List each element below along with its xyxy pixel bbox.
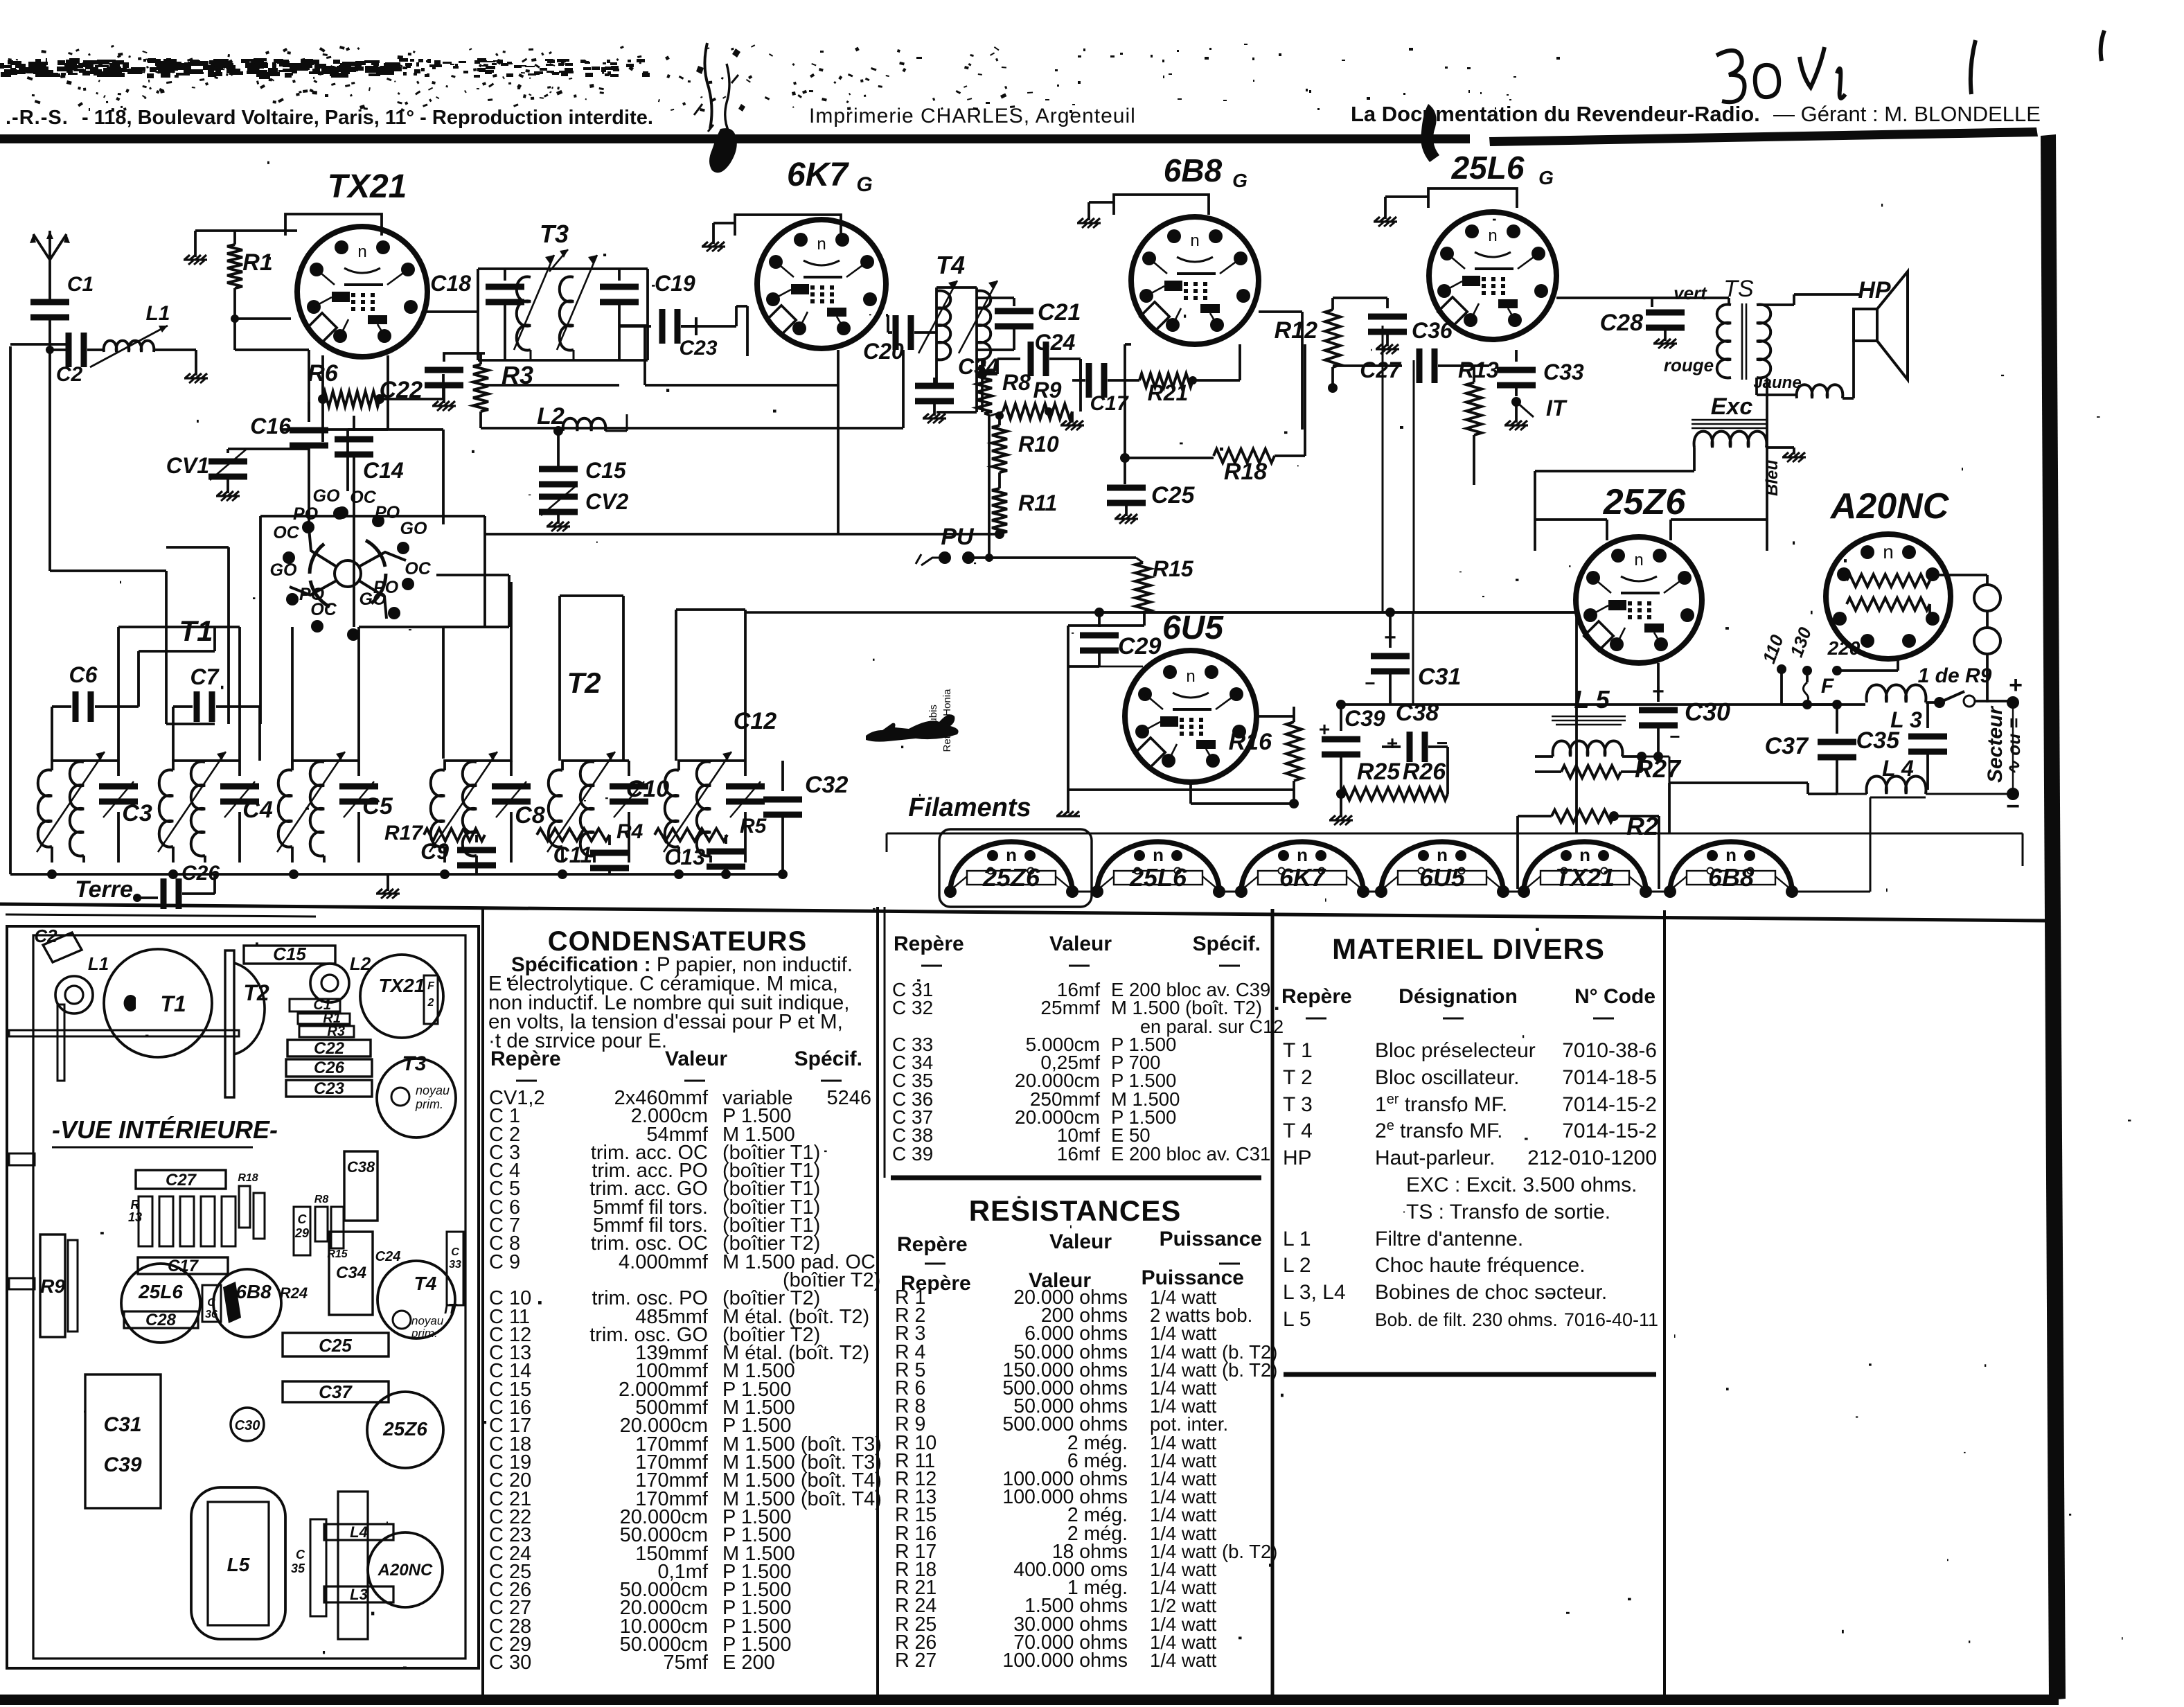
resistor R1 (227, 231, 291, 323)
wire R11 bottom bus (485, 533, 1000, 536)
C2 plate (34, 926, 82, 962)
coil L3 (1867, 685, 1926, 733)
svg-text:C31: C31 (103, 1413, 141, 1436)
svg-text:OC: OC (310, 600, 337, 619)
capacitor C29 (1068, 612, 1161, 666)
filament links (1072, 797, 1926, 892)
svg-text:25L6: 25L6 (1451, 150, 1525, 186)
C35 chassis (291, 1519, 326, 1616)
svg-text:—: — (1069, 953, 1090, 976)
svg-text:R 27: R 27 (895, 1649, 936, 1672)
svg-text:C6: C6 (69, 662, 98, 687)
svg-text:25L6: 25L6 (1129, 863, 1187, 892)
svg-text:6B8: 6B8 (1164, 152, 1223, 188)
resistor R10 (992, 412, 1059, 472)
svg-text:C23: C23 (314, 1079, 345, 1098)
25L6 chassis (121, 1264, 200, 1343)
capacitor C14 (335, 416, 404, 524)
svg-text:4.000mmf: 4.000mmf (619, 1251, 709, 1273)
svg-text:Désignation: Désignation (1399, 985, 1518, 1008)
6B8 top box (1114, 195, 1209, 215)
svg-text:n: n (1725, 844, 1737, 865)
tube 6B8 (1131, 217, 1259, 344)
svg-text:G: G (856, 173, 872, 196)
resistor R9 potentiometer (984, 378, 1084, 430)
svg-text:C24: C24 (375, 1249, 401, 1264)
svg-text:220: 220 (1827, 637, 1861, 659)
ground 6K7 top (702, 223, 735, 251)
handwritten 30V (1716, 30, 2104, 102)
svg-text:n: n (1437, 844, 1448, 865)
transfo T4 frame (936, 288, 977, 412)
svg-text:C12: C12 (734, 708, 776, 734)
svg-text:C26: C26 (314, 1059, 345, 1077)
svg-text:E 200: E 200 (722, 1652, 775, 1674)
svg-text:T3: T3 (540, 220, 569, 248)
svg-text:R1: R1 (242, 249, 272, 276)
svg-text:C13: C13 (664, 844, 705, 869)
6B8 chassis (213, 1269, 281, 1337)
svg-text:TX21: TX21 (328, 168, 407, 205)
svg-text:C23: C23 (679, 337, 717, 360)
C1 box (290, 998, 340, 1013)
svg-text:C19: C19 (655, 271, 695, 296)
svg-text:R9: R9 (1033, 378, 1062, 403)
vertical R8 to PU (988, 416, 991, 558)
svg-text:noyau: noyau (411, 1314, 444, 1327)
wire exc left down (1535, 448, 1694, 551)
svg-text:1er transfo MF.: 1er transfo MF. (1375, 1092, 1507, 1116)
capacitor C34 (915, 354, 999, 423)
svg-text:F: F (427, 980, 435, 992)
svg-text:—: — (1306, 1006, 1326, 1029)
capacitor C27 (1333, 348, 1458, 383)
svg-text:C30: C30 (1685, 698, 1730, 726)
svg-text:n: n (1297, 844, 1308, 865)
svg-text:Bob. de filt. 230 ohms.: Bob. de filt. 230 ohms. (1375, 1309, 1558, 1330)
capacitor C11 (553, 835, 629, 874)
svg-text:C32: C32 (805, 772, 848, 798)
Exc field coil (1692, 420, 1768, 448)
svg-text:C2: C2 (56, 363, 83, 386)
svg-text:C29: C29 (1118, 633, 1161, 660)
svg-text:R15: R15 (1153, 556, 1194, 581)
svg-text:T1: T1 (160, 991, 186, 1016)
svg-text:7014-15-2: 7014-15-2 (1562, 1120, 1657, 1142)
svg-text:n: n (1186, 667, 1195, 686)
A20NC chassis (368, 1532, 443, 1607)
svg-text:L 3, L4: L 3, L4 (1283, 1281, 1346, 1304)
wire L2 down (557, 431, 560, 467)
T3 chassis (377, 1052, 456, 1138)
svg-text:TX21: TX21 (1555, 863, 1615, 892)
antenna feed vertical (50, 350, 166, 627)
ground C39 (1329, 789, 1353, 825)
svg-text:vert: vert (1673, 283, 1707, 303)
filament TX21 (1518, 842, 1652, 898)
svg-text:—: — (1219, 953, 1240, 976)
svg-text:7016-40-11: 7016-40-11 (1564, 1309, 1658, 1330)
tear smudge right of center (1421, 104, 1439, 162)
svg-text:6K7: 6K7 (1279, 863, 1326, 892)
svg-text:C24: C24 (1035, 330, 1076, 355)
svg-text:2e transfo MF.: 2e transfo MF. (1375, 1118, 1503, 1142)
transfo T3 frame (478, 269, 648, 360)
T2 chassis (225, 950, 269, 1097)
svg-text:TX21: TX21 (379, 975, 425, 996)
switch 1deR9 (1926, 691, 2010, 708)
svg-text:-VUE INTÉRIEURE-: -VUE INTÉRIEURE- (52, 1115, 278, 1144)
capacitor C30 (1639, 663, 1730, 761)
svg-text:C 30: C 30 (489, 1652, 531, 1674)
L4 chassis (324, 1523, 393, 1541)
capacitor C38 (1382, 700, 1448, 762)
svg-text:C 39: C 39 (892, 1143, 933, 1165)
capacitor C21 (977, 298, 1081, 350)
capacitor C2 (56, 333, 87, 386)
svg-text:C22: C22 (380, 377, 423, 403)
svg-text:25Z6: 25Z6 (382, 1418, 427, 1440)
chassis inner outline (33, 935, 465, 1659)
R1 box (298, 1011, 350, 1026)
resistor R2 (1518, 810, 1659, 889)
svg-text:Valeur: Valeur (1049, 932, 1112, 955)
column separator 4 (1663, 910, 1666, 1695)
chassis left tab 2 (9, 1278, 35, 1289)
svg-text:R: R (131, 1198, 140, 1212)
svg-text:R24: R24 (280, 1284, 308, 1302)
tap dots (1777, 664, 1786, 674)
T4 primary coil (918, 281, 957, 360)
resistor R4 (537, 820, 643, 843)
bottom bus (10, 873, 783, 876)
coil L2 (537, 403, 627, 436)
svg-text:L2: L2 (537, 403, 565, 430)
svg-text:C38: C38 (347, 1158, 375, 1176)
svg-text:PU: PU (941, 524, 975, 550)
svg-text:EXC : Excit. 3.500 ohms.: EXC : Excit. 3.500 ohms. (1406, 1174, 1637, 1196)
svg-text:C27: C27 (166, 1171, 197, 1189)
svg-text:C 32: C 32 (892, 997, 933, 1018)
B+ rails (1099, 611, 1390, 614)
tube TX21 (297, 227, 427, 357)
svg-text:6K7: 6K7 (787, 157, 849, 193)
svg-text:−: − (1669, 726, 1680, 747)
C27 box (136, 1170, 226, 1189)
TX21 top box (285, 214, 382, 236)
svg-text:5246: 5246 (826, 1087, 871, 1109)
svg-text:R25: R25 (1357, 759, 1401, 785)
filament box (939, 829, 1092, 907)
6K7 top box (735, 215, 841, 236)
svg-text:rouge: rouge (1664, 355, 1714, 375)
svg-text:GO: GO (270, 560, 297, 580)
svg-text:C34: C34 (336, 1264, 366, 1282)
voice coil (1797, 384, 1843, 398)
wire L1 to ground (154, 350, 196, 375)
svg-text:75mf: 75mf (664, 1652, 709, 1674)
bloc T1 section 2 coil + trimmer C4 (158, 752, 259, 863)
svg-text:R26: R26 (1403, 759, 1446, 785)
watermark silhouette (866, 714, 959, 741)
resistor R11 (992, 472, 1057, 533)
filament 6U5 (1375, 842, 1509, 898)
svg-text:T3: T3 (402, 1052, 426, 1075)
svg-text:R21: R21 (1148, 380, 1189, 405)
svg-text:Choc haute fréquence.: Choc haute fréquence. (1375, 1254, 1586, 1277)
svg-text:−: − (1437, 732, 1448, 754)
wire TS secondary to coil (1757, 294, 1859, 395)
svg-text:n: n (1883, 541, 1894, 563)
wire 6B8 bottom runs (1125, 344, 1131, 346)
Terre (75, 876, 158, 903)
svg-text:Exc: Exc (1711, 393, 1753, 420)
svg-text:R8: R8 (1002, 370, 1031, 395)
variable capacitor CV2 (539, 485, 628, 531)
T1 chassis (104, 949, 212, 1057)
table condensateurs header (490, 1047, 862, 1091)
svg-text:Repère: Repère (490, 1047, 561, 1070)
svg-text:Spécif.: Spécif. (794, 1047, 862, 1070)
bloc T2 section 1 coil + trimmer C8 (429, 752, 531, 863)
svg-text:Terre: Terre (75, 876, 133, 903)
capacitor C28 (1600, 310, 1685, 349)
25Z6 chassis (367, 1392, 443, 1468)
svg-text:n: n (1006, 844, 1017, 865)
svg-text:Bleu: Bleu (1763, 460, 1782, 496)
svg-text:6B8: 6B8 (1708, 863, 1754, 892)
bank risers (52, 627, 260, 761)
C38 chassis (344, 1151, 378, 1221)
T3 bottom wire (478, 359, 648, 362)
resistances rows (895, 1286, 1277, 1672)
svg-text:PO: PO (375, 503, 400, 522)
T3 label (540, 220, 569, 272)
svg-text:2: 2 (427, 997, 434, 1009)
transfo TS (1717, 303, 1771, 380)
resistor R8 (977, 360, 1031, 414)
svg-text:MATERIEL DIVERS: MATERIEL DIVERS (1332, 932, 1605, 965)
coil L1 (87, 302, 170, 367)
svg-text:N° Code: N° Code (1574, 985, 1655, 1008)
svg-text:CV2: CV2 (585, 489, 628, 514)
R18 R15 slips (238, 1172, 265, 1239)
T4 label (936, 251, 965, 279)
T3 primary coil (514, 255, 554, 360)
svg-text:Filaments: Filaments (908, 793, 1031, 822)
central ground (376, 874, 400, 899)
svg-text:C22: C22 (314, 1039, 345, 1058)
svg-text:6U5: 6U5 (1162, 610, 1224, 646)
wire 25L6 plate to C28/TS (1556, 298, 1652, 307)
svg-text:GO: GO (359, 590, 387, 609)
svg-text:R4: R4 (616, 820, 643, 843)
svg-text:— Gérant : M. BLONDELLE: — Gérant : M. BLONDELLE (1773, 102, 2041, 126)
bleu wire (1766, 378, 1768, 551)
rotary switch (283, 506, 414, 641)
svg-text:HP: HP (1283, 1147, 1312, 1169)
svg-text:C8: C8 (515, 802, 545, 829)
column separator 2 (876, 907, 879, 1695)
svg-text:C 9: C 9 (489, 1251, 520, 1273)
resistor R25 (1341, 759, 1401, 800)
svg-text:−: − (1365, 673, 1375, 693)
svg-text:M 1.500 (boît. T2): M 1.500 (boît. T2) (1111, 997, 1262, 1018)
resistor R12 (1275, 298, 1340, 393)
svg-text:16mf: 16mf (1057, 1143, 1100, 1165)
svg-text:C33: C33 (1543, 360, 1584, 384)
tube A20NC ballast (1826, 534, 1951, 659)
resistor R6 (308, 360, 384, 407)
svg-text:C11: C11 (553, 842, 592, 867)
svg-text:T 2: T 2 (1283, 1066, 1313, 1089)
tube 25L6 (1429, 212, 1556, 339)
pilot lamp terminals (1933, 574, 2000, 702)
capacitor C6 (52, 662, 127, 722)
wire R1 junction down (235, 319, 309, 422)
header rule left segment (0, 134, 1470, 143)
svg-text:T2: T2 (567, 666, 601, 699)
C36 chassis (202, 1285, 221, 1322)
svg-text:212-010-1200: 212-010-1200 (1527, 1147, 1657, 1169)
chassis left tab 1 (9, 1153, 35, 1165)
left vertical feed (10, 344, 66, 874)
svg-text:130: 130 (1786, 624, 1815, 660)
svg-text:C20: C20 (863, 339, 904, 364)
svg-text:prim.: prim. (411, 1327, 438, 1340)
svg-text:Valeur: Valeur (1049, 1230, 1112, 1253)
table condensateurs intro (488, 953, 853, 1052)
C23 box (286, 1079, 372, 1098)
capacitor C33 (1497, 350, 1584, 396)
wire R3 bottom long (481, 350, 903, 534)
C22 box (287, 1039, 371, 1058)
svg-text:Anubis: Anubis (927, 705, 939, 736)
svg-text:1 de R9: 1 de R9 (1918, 664, 1992, 687)
capacitor C32 (763, 761, 848, 874)
svg-text:Valeur: Valeur (665, 1047, 727, 1070)
capacitor C37 (1765, 705, 1856, 794)
tuning shaft (9, 1030, 239, 1036)
svg-text:R17: R17 (384, 822, 423, 844)
ground 25L6 top (1374, 197, 1428, 227)
svg-text:C21: C21 (1038, 299, 1081, 326)
resistor R17 (384, 822, 485, 844)
table c31 rows (892, 979, 1284, 1165)
svg-text:R5: R5 (740, 815, 767, 838)
svg-text:n: n (1634, 551, 1643, 569)
separator under c39 (891, 1176, 1261, 1180)
svg-text:29: 29 (294, 1226, 309, 1240)
svg-text:C14: C14 (363, 458, 404, 483)
svg-text:25Z6: 25Z6 (1603, 482, 1687, 522)
svg-text:R3: R3 (501, 361, 533, 389)
svg-text:T 3: T 3 (1283, 1093, 1313, 1116)
wire TX21 grid left (281, 355, 388, 430)
svg-text:—: — (1593, 1006, 1614, 1029)
svg-text:R12: R12 (1275, 317, 1317, 344)
svg-text:100.000 ohms: 100.000 ohms (1002, 1649, 1128, 1672)
filament 25L6 (1091, 842, 1225, 898)
C31 C39 block (85, 1374, 161, 1508)
svg-text:E 200 bloc av. C31: E 200 bloc av. C31 (1111, 1143, 1270, 1165)
svg-text:25Z6: 25Z6 (982, 863, 1040, 892)
svg-text:A20NC: A20NC (378, 1561, 433, 1580)
capacitor C36 (1333, 298, 1453, 354)
svg-text:T 4: T 4 (1283, 1120, 1313, 1142)
svg-text:T1: T1 (179, 614, 213, 647)
svg-text:TS : Transfo de sortie.: TS : Transfo de sortie. (1406, 1201, 1610, 1223)
T3 secondary coil (557, 255, 597, 360)
L5 chassis (191, 1487, 285, 1639)
bloc T2 section 2 coil + trimmer C10 (547, 752, 648, 863)
svg-text:C: C (451, 1246, 459, 1258)
svg-text:R15: R15 (327, 1248, 348, 1260)
svg-text:C30: C30 (235, 1418, 260, 1433)
F switch (1803, 675, 1834, 705)
svg-text:noyau: noyau (416, 1084, 450, 1097)
svg-text:+: + (2009, 672, 2023, 698)
svg-text:RESISTANCES: RESISTANCES (969, 1194, 1182, 1227)
L1 chassis (55, 953, 109, 1014)
svg-text:CV1: CV1 (166, 453, 209, 478)
C25 chassis (283, 1333, 389, 1356)
capacitor C13 (664, 835, 745, 874)
capacitor C23 (659, 306, 748, 360)
svg-text:PO: PO (293, 504, 319, 524)
svg-text:—: — (925, 1251, 945, 1274)
capacitor C26 (161, 862, 220, 909)
wire R6 run (323, 355, 443, 442)
svg-text:n: n (1190, 231, 1199, 250)
svg-text:C1: C1 (67, 273, 94, 296)
resistor R26 (1396, 759, 1448, 800)
coil L5 (1535, 716, 1642, 757)
svg-text:C15: C15 (585, 458, 627, 483)
svg-text:n: n (357, 242, 366, 261)
svg-text:L1: L1 (88, 953, 109, 974)
resistor R3 (473, 353, 533, 428)
svg-text:prim.: prim. (415, 1097, 443, 1111)
6U5 frame (1068, 626, 1294, 813)
svg-text:25mmf: 25mmf (1040, 997, 1100, 1018)
capacitor C16 (250, 402, 328, 471)
svg-text:—: — (921, 953, 942, 976)
capacitor C9 (420, 835, 496, 874)
switch frame wires (166, 516, 509, 724)
B+ vertical rails (1383, 326, 1414, 612)
svg-text:.-R.-S.: .-R.-S. (6, 107, 69, 129)
25L6 top box (1428, 188, 1517, 208)
wire TX21 plate to T3 (427, 269, 478, 312)
svg-text:n: n (1488, 227, 1497, 245)
right page border bar (2041, 134, 2066, 1700)
capacitor C7 (173, 664, 248, 722)
svg-text:C37: C37 (319, 1381, 353, 1402)
svg-text:C25: C25 (319, 1335, 352, 1356)
svg-text:Repère: Repère (1281, 985, 1352, 1008)
svg-text:T 1: T 1 (1283, 1039, 1313, 1062)
capacitor C35 (1856, 702, 1947, 790)
minus terminal (2006, 702, 2020, 820)
resistor R13 (1458, 357, 1499, 485)
svg-text:TS: TS (1723, 276, 1754, 302)
svg-text:R18: R18 (238, 1172, 258, 1184)
vertical C17 column (1124, 346, 1126, 458)
svg-text:C2: C2 (34, 926, 57, 946)
C26 box (286, 1059, 372, 1077)
capacitor C31 (1365, 612, 1461, 705)
